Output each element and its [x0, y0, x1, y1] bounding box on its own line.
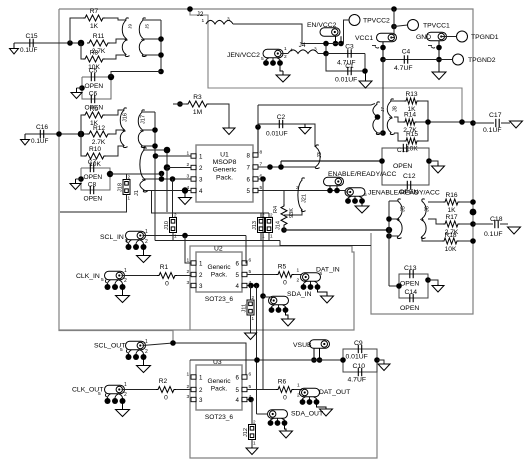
connector legs CLK_IN [108, 280, 123, 285]
capacitor C15 [30, 39, 33, 47]
junction n47 [386, 233, 392, 239]
resistor R4 [281, 204, 287, 227]
svg-text:C16: C16 [36, 124, 48, 131]
wire R6 right [294, 389, 302, 391]
jumper J13 [258, 218, 265, 233]
svg-text:0.01UF: 0.01UF [346, 354, 368, 361]
junction n60 [254, 283, 260, 289]
resistor R12 [87, 131, 110, 137]
junction n31 [470, 120, 476, 126]
wire R9 left riser [81, 115, 83, 134]
IC U2 [196, 252, 242, 292]
wire U1 p5 wire [258, 190, 345, 192]
connector curl CLK_OUT [105, 394, 107, 398]
wire net2 w3 [106, 146, 124, 156]
wire R18 left [422, 237, 442, 241]
svg-text:C4: C4 [402, 49, 411, 56]
ground JENVCC2 ground [276, 71, 290, 82]
svg-text:C5: C5 [89, 68, 98, 75]
component J1 [140, 148, 148, 192]
svg-text:R17: R17 [445, 214, 457, 221]
wire C7C8 gnd jog [76, 178, 82, 180]
junction n45 [281, 227, 287, 233]
wire VCC1 drop [382, 42, 384, 60]
wire minibus join [377, 132, 383, 134]
capacitor C14 [410, 294, 413, 302]
wire SDAOUT wire [257, 413, 268, 415]
ground C15 ground [10, 43, 19, 54]
svg-text:8: 8 [260, 150, 263, 156]
ground J12 ground [246, 447, 258, 455]
svg-text:R3: R3 [193, 94, 202, 101]
svg-text:J13: J13 [252, 221, 258, 230]
svg-text:J12: J12 [243, 428, 249, 437]
resistor R10 [84, 153, 106, 159]
wire C16 net [25, 133, 88, 135]
wire net1 to J2 [160, 19, 162, 21]
wire mid bus wires [389, 200, 398, 202]
svg-text:2: 2 [145, 349, 148, 355]
junction n43 [278, 164, 284, 170]
capacitor C5 [91, 73, 94, 81]
wire R3 right [209, 104, 229, 128]
wire enable to C13 [389, 285, 399, 287]
svg-text:0.1UF: 0.1UF [484, 231, 503, 238]
connector pins JEN/VCC2 [263, 60, 269, 66]
svg-text:OPEN: OPEN [400, 305, 419, 312]
connector pins CLK_OUT [105, 398, 111, 404]
jumper J12 [249, 425, 256, 440]
resistor R14 [403, 119, 417, 125]
svg-text:R10: R10 [89, 146, 101, 153]
svg-text:2: 2 [128, 175, 131, 180]
connector ENABLE [324, 177, 344, 186]
svg-text:OPEN: OPEN [393, 163, 412, 170]
junction n7 [79, 85, 85, 91]
svg-text:6: 6 [247, 177, 251, 184]
svg-text:TPVCC2: TPVCC2 [363, 18, 390, 25]
connector SCL_IN pill [126, 231, 146, 240]
wire J13 top [260, 213, 262, 218]
junction n8 [56, 131, 62, 137]
resistor R15 [404, 138, 419, 144]
wire J3 feed [305, 124, 315, 147]
svg-text:1: 1 [145, 339, 148, 345]
svg-text:2: 2 [270, 213, 273, 218]
connector DAT_IN [301, 273, 321, 282]
IC U3 [196, 365, 242, 410]
svg-text:2: 2 [296, 185, 299, 191]
curl GND [431, 47, 435, 49]
capacitor C18 [495, 220, 498, 228]
ground C17 ground [510, 121, 523, 128]
connector legs SDA_IN [272, 305, 286, 308]
svg-text:0.1UF: 0.1UF [31, 138, 48, 145]
wire enable bus drop [388, 201, 390, 286]
svg-text:R11: R11 [93, 33, 105, 40]
ground J11 ground [245, 333, 257, 340]
wire sda drop [256, 286, 258, 415]
svg-text:C9: C9 [354, 340, 363, 347]
wire SCLOUT wire [143, 343, 248, 377]
junction n48 [327, 188, 333, 194]
svg-text:R13: R13 [405, 91, 417, 98]
svg-text:J5: J5 [401, 206, 407, 212]
wire net1 w2 [110, 39, 126, 43]
wire DATOUT gnd stem [317, 404, 327, 409]
svg-text:5: 5 [120, 347, 123, 353]
component J17 [138, 110, 145, 148]
junction n32 [379, 158, 385, 164]
svg-text:3: 3 [314, 47, 317, 53]
wire vsub wire [190, 359, 343, 361]
wire SDAIN tap [263, 296, 266, 297]
wire pin8 net wire [258, 104, 375, 106]
svg-text:1: 1 [187, 372, 190, 378]
resistor R17 [443, 221, 460, 227]
svg-text:OPEN: OPEN [84, 174, 103, 181]
svg-text:4: 4 [290, 48, 293, 54]
svg-text:Pack.: Pack. [211, 386, 228, 393]
resistor R18 [442, 238, 459, 244]
svg-text:SDA_IN: SDA_IN [287, 291, 312, 298]
wire JENVCC2 gnd stem [280, 65, 283, 72]
wire R17 right [460, 223, 473, 225]
ground C11 ground [432, 163, 445, 173]
connector curl CLK_IN [105, 280, 107, 284]
wire U2 section box [59, 246, 354, 330]
wire R17 left [428, 219, 443, 224]
svg-text:R1: R1 [160, 264, 169, 271]
svg-text:4.7UF: 4.7UF [348, 377, 367, 384]
svg-text:1: 1 [199, 375, 203, 382]
svg-text:C1: C1 [345, 63, 354, 70]
wire net1 w3 [105, 55, 126, 59]
junction n37 [164, 147, 171, 154]
svg-text:1K: 1K [90, 23, 99, 30]
ground SDAIN ground [282, 317, 295, 326]
svg-text:J11: J11 [242, 304, 248, 313]
wire JENABLE link [345, 191, 349, 193]
connector VCC1 [377, 33, 397, 42]
ground C9 ground [378, 363, 390, 371]
junction n50 [386, 216, 392, 222]
svg-text:2.7K: 2.7K [92, 139, 106, 146]
svg-text:1: 1 [124, 382, 127, 388]
svg-text:1: 1 [174, 234, 177, 239]
wire C13 frame [399, 274, 428, 298]
ground DATIN ground [321, 294, 334, 303]
connector legs DAT_IN [304, 281, 318, 285]
wire J4 out [318, 53, 326, 55]
svg-text:1: 1 [284, 46, 287, 52]
wire JEN to J4 [281, 53, 289, 55]
ground C18 ground [508, 227, 521, 234]
resistor R5 [276, 272, 294, 278]
jumper J11 [247, 300, 254, 315]
svg-text:OPEN: OPEN [85, 83, 104, 90]
wire J18 top [126, 174, 128, 180]
capacitor C10 [358, 368, 361, 376]
junction n23 [380, 45, 386, 51]
connector SDA_OUT [268, 410, 288, 419]
svg-text:J1: J1 [134, 190, 140, 196]
svg-text:2: 2 [252, 295, 255, 300]
junction n54 [470, 238, 476, 244]
junction n11 [152, 143, 158, 149]
svg-text:1: 1 [297, 268, 300, 274]
wire U3 p4 wire [247, 399, 252, 401]
svg-text:J16: J16 [123, 113, 129, 122]
wire R1 right [177, 275, 191, 277]
svg-text:J6: J6 [425, 206, 431, 212]
resistor R8 [83, 56, 105, 62]
connector legs SCL_IN [129, 240, 144, 245]
svg-text:C18: C18 [490, 216, 503, 223]
svg-text:SOT23_6: SOT23_6 [205, 414, 234, 421]
test point TPVCC1 [408, 20, 419, 31]
capacitor C4 [404, 55, 407, 63]
svg-text:1: 1 [124, 268, 127, 274]
wire SDAIN wire [266, 297, 272, 301]
wire J8 top wire [391, 100, 398, 102]
wire U1 p7 wire [258, 166, 316, 168]
wire J10 riser [172, 179, 174, 218]
wire SCL_IN gnd stem [143, 249, 145, 252]
capacitor C11 [403, 144, 406, 152]
wire SCL_OUT gnd stem [143, 359, 145, 362]
wire ENABLE drop a [329, 186, 331, 191]
wire p2 riser [166, 150, 168, 168]
connector legs DAT_OUT [303, 397, 317, 400]
inductor J4 [288, 50, 318, 54]
wire DATIN gnd stem [318, 289, 328, 295]
junction n57 [182, 233, 188, 239]
junction n24 [380, 57, 386, 63]
svg-text:C11: C11 [397, 147, 409, 154]
junction n1 [67, 40, 73, 46]
wire p2 down [166, 168, 168, 213]
wire pin8 net riser [257, 105, 259, 127]
svg-text:1: 1 [270, 234, 273, 239]
wire net1 w4 [143, 19, 161, 21]
wire wire 240 [155, 240, 280, 242]
svg-text:Generic: Generic [213, 167, 237, 174]
resistor R6 [276, 387, 294, 393]
jumper J14 [266, 218, 273, 233]
junction n51 [470, 199, 476, 205]
junction n14 [187, 6, 193, 12]
junction n64 [311, 357, 317, 363]
junction n68 [374, 357, 380, 363]
test point TPGND1 [457, 31, 468, 42]
svg-text:2: 2 [297, 278, 300, 284]
svg-text:0.01UF: 0.01UF [335, 77, 357, 84]
junction n58 [260, 293, 266, 299]
svg-text:2: 2 [124, 392, 127, 398]
svg-text:J18: J18 [118, 183, 124, 192]
wire border top+right [59, 9, 473, 314]
component J16 [120, 108, 127, 148]
svg-text:3: 3 [187, 394, 190, 400]
wire wire y174 [110, 173, 162, 175]
wire C17 gnd link [501, 122, 510, 124]
svg-text:6: 6 [249, 258, 252, 264]
ground C5C6 ground [71, 88, 82, 99]
wire U2 p6 wire [246, 236, 247, 264]
svg-text:0: 0 [283, 395, 287, 402]
inductor J2 [206, 20, 233, 24]
junction n34 [255, 124, 261, 130]
svg-text:U1: U1 [220, 152, 229, 159]
ground C3 ground [359, 71, 372, 88]
svg-text:0: 0 [283, 280, 287, 287]
connector CLK_OUT pill [105, 385, 125, 394]
wire net1 w1 [105, 18, 126, 20]
svg-text:SDA_OUT: SDA_OUT [291, 411, 323, 418]
svg-text:R6: R6 [278, 379, 287, 386]
wire GND drop [438, 41, 440, 60]
svg-text:C14: C14 [405, 289, 418, 296]
svg-text:C15: C15 [25, 33, 37, 40]
wire SCLIN wire [143, 235, 247, 237]
wire J13 bottom [260, 233, 262, 241]
connector EN/VCC2 [320, 28, 340, 37]
wire ENVCC2 drop b [340, 36, 342, 43]
component J7 [373, 102, 381, 135]
svg-text:C7: C7 [88, 159, 97, 166]
wire R7 left riser [70, 18, 83, 43]
svg-text:R12: R12 [93, 125, 105, 132]
svg-text:6: 6 [236, 261, 240, 268]
component J8 [387, 99, 394, 135]
svg-text:5: 5 [236, 272, 240, 279]
ground TPGND ground [432, 60, 446, 80]
wire J14 bottom [268, 233, 270, 241]
svg-text:2: 2 [262, 213, 265, 218]
junction n40b [170, 176, 176, 182]
junction n29 [425, 119, 431, 125]
capacitor C3 [348, 49, 351, 57]
svg-text:OPEN: OPEN [84, 196, 103, 203]
svg-text:R15: R15 [406, 131, 418, 138]
svg-text:J5: J5 [145, 24, 151, 29]
wire C11 frame [382, 148, 429, 185]
wire C2 wire [258, 123, 305, 125]
svg-text:10K: 10K [445, 246, 457, 253]
wire C7C8 riser [161, 174, 163, 180]
junction n28 [380, 130, 386, 136]
wire J21 bot link [284, 210, 302, 215]
svg-text:Pack.: Pack. [211, 272, 228, 279]
ground C16 ground [21, 134, 30, 145]
wire U1 p2 wire [167, 167, 191, 169]
connector GND [427, 32, 447, 41]
ground C2 ground [299, 124, 311, 134]
connector pins SCL_OUT [126, 354, 132, 360]
wire R18 right [459, 240, 473, 242]
svg-text:J3: J3 [317, 152, 323, 158]
svg-text:J4: J4 [299, 42, 306, 49]
connector JENABLE [345, 188, 365, 197]
junction n39 [182, 187, 188, 193]
junction n4 [158, 52, 164, 58]
svg-text:J10: J10 [164, 221, 170, 230]
ground JENABLE ground [355, 206, 369, 213]
junction n17 [338, 41, 344, 47]
resistor R16 [443, 199, 460, 205]
resistor R9 [83, 112, 105, 118]
junction n33 [426, 158, 432, 164]
resistor R3 [186, 101, 209, 107]
wire J1 top wire [144, 149, 167, 151]
svg-text:SCL_IN: SCL_IN [100, 234, 124, 241]
wire C14 gnd link [428, 280, 438, 284]
wire J2 out [233, 24, 322, 44]
resistor R13 [404, 98, 419, 104]
junction n42 [267, 164, 273, 170]
svg-text:1M: 1M [193, 109, 202, 116]
component J21 [298, 178, 306, 212]
wire U1 p1 wire [156, 155, 192, 157]
junction n22 [391, 24, 397, 30]
junction n3 [158, 36, 164, 42]
wire double riser [280, 161, 282, 167]
wire C11 gnd link [429, 161, 438, 163]
ground SCL_OUT ground [137, 362, 151, 373]
svg-text:J9: J9 [128, 24, 134, 29]
wire CLKIN wire [122, 275, 158, 277]
junction n63 [248, 397, 254, 403]
svg-text:SOT23_6: SOT23_6 [205, 296, 234, 303]
junction n38 [159, 171, 165, 177]
resistor R11 [87, 40, 110, 46]
svg-text:R7: R7 [90, 8, 99, 15]
svg-text:C6: C6 [89, 91, 98, 98]
IC U1 [196, 145, 253, 202]
svg-text:2: 2 [145, 239, 148, 245]
wire net1 bus [160, 20, 162, 72]
svg-text:1: 1 [202, 18, 205, 24]
svg-text:TPGND2: TPGND2 [468, 57, 496, 64]
svg-text:DAT_OUT: DAT_OUT [319, 389, 350, 396]
component J15 left [122, 18, 129, 57]
connector curl SCL_OUT [126, 350, 128, 354]
connector curl SCL_IN [126, 240, 128, 244]
junction n46 [386, 227, 392, 233]
svg-text:Pack.: Pack. [216, 174, 233, 181]
wire net2 w1 [105, 110, 124, 115]
junction n16 [333, 41, 339, 47]
wire R3 left [173, 103, 186, 105]
connector DAT_OUT [300, 388, 320, 397]
wire p6 drop [262, 179, 264, 389]
wire ENVCC2 drop a [335, 36, 337, 43]
capacitor C2 [279, 120, 282, 128]
wire C9 gnd link [377, 360, 384, 363]
wire J12 top [251, 400, 253, 425]
wire C3 top [326, 53, 365, 55]
wire net2 bus [154, 112, 156, 241]
svg-text:0.1UF: 0.1UF [20, 47, 37, 54]
wire double line upper [281, 160, 382, 162]
ground SDAOUT ground [280, 430, 293, 438]
wire CLK_OUT gnd stem [122, 403, 124, 406]
junction n26 [436, 57, 442, 63]
wire SDAOUT gnd stem [285, 425, 287, 431]
junction n21 [391, 6, 397, 12]
svg-text:0: 0 [164, 395, 168, 402]
